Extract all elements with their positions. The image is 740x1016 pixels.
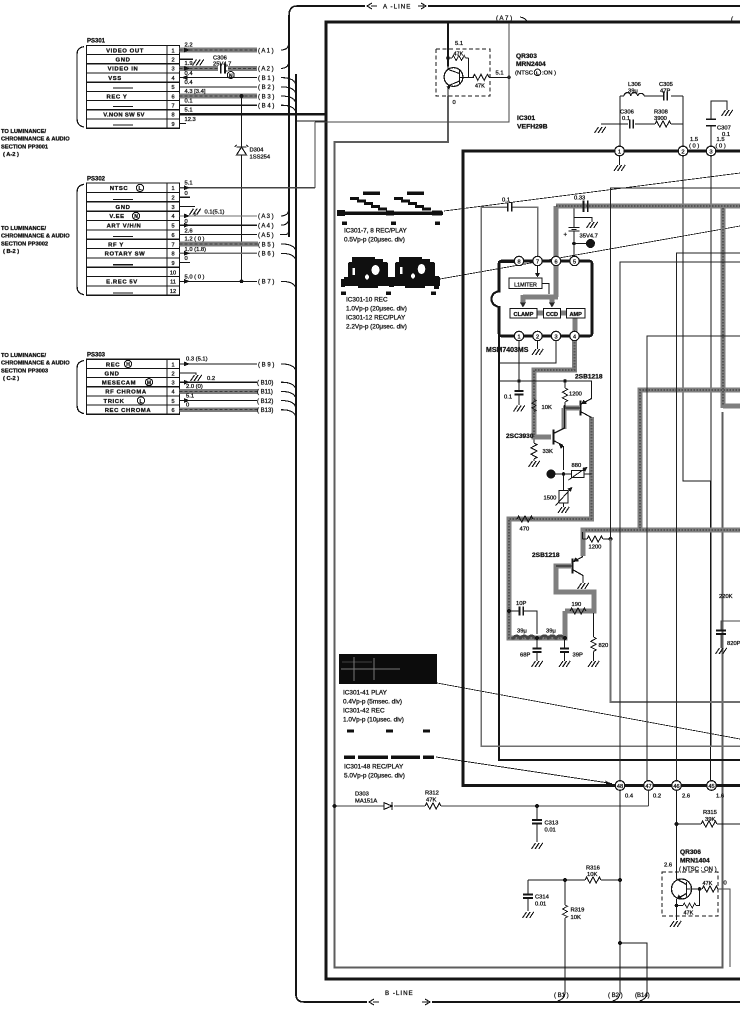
- svg-text:IC301-10 REC: IC301-10 REC: [346, 297, 388, 304]
- svg-text:6: 6: [171, 408, 174, 414]
- capacitor 0.1 (pin7 loop): [508, 203, 512, 212]
- svg-text:L1MITER: L1MITER: [514, 282, 537, 288]
- svg-text:( 0 ): ( 0 ): [716, 144, 726, 150]
- ground PS301-2: [193, 60, 204, 66]
- svg-text:5: 5: [171, 85, 174, 91]
- wire clamp-ccd-amp links: [536, 311, 567, 316]
- pin MSM-4: [570, 331, 579, 340]
- svg-text:0.1: 0.1: [622, 116, 630, 122]
- QR303_AREA: [315, 23, 556, 131]
- svg-text:4: 4: [171, 76, 174, 82]
- svg-text:RF CHROMA: RF CHROMA: [105, 390, 147, 396]
- wire R316 row: [528, 879, 620, 881]
- svg-text:0.1(5.1): 0.1(5.1): [205, 209, 225, 215]
- svg-text:8: 8: [517, 259, 520, 265]
- svg-text:( A 2 ): ( A 2 ): [258, 67, 274, 73]
- svg-text:8: 8: [171, 252, 174, 258]
- pin MSM-8: [514, 256, 523, 265]
- wire AMP to pin4 thick: [573, 317, 578, 332]
- pin MSM-2: [533, 331, 542, 340]
- pin IC301-3: [706, 146, 716, 156]
- pin IC301-48: [615, 781, 625, 791]
- diode D303: [384, 803, 392, 810]
- svg-text:39μ: 39μ: [628, 88, 638, 94]
- svg-text:6: 6: [171, 94, 174, 100]
- svg-text:IC301-12 REC/PLAY: IC301-12 REC/PLAY: [346, 315, 406, 322]
- capacitor C314: [527, 880, 529, 911]
- svg-text:820P: 820P: [727, 641, 740, 647]
- WAVEFORMS: [337, 173, 740, 785]
- wire PS301-8 V.NON SW 5V (bold): [179, 113, 327, 115]
- svg-text:1.0Vp-p (10μsec. div): 1.0Vp-p (10μsec. div): [343, 717, 404, 724]
- svg-text:0.1: 0.1: [185, 99, 193, 105]
- wire PS303-3 MESECAM to B10: [179, 381, 257, 383]
- op-amp IC301 block frame: [463, 151, 740, 786]
- svg-text:D303: D303: [355, 792, 369, 798]
- capacitor C306 (filter): [630, 120, 634, 129]
- svg-text:7: 7: [171, 104, 174, 110]
- svg-text:33K: 33K: [543, 449, 553, 455]
- svg-text:35V4.7: 35V4.7: [580, 234, 598, 240]
- svg-text:IC301-7, 8 REC/PLAY: IC301-7, 8 REC/PLAY: [344, 228, 407, 235]
- svg-text:3900: 3900: [654, 116, 667, 122]
- svg-text:45: 45: [708, 784, 714, 790]
- svg-text:2: 2: [171, 58, 174, 64]
- svg-text:( B 3 ): ( B 3 ): [258, 94, 274, 100]
- hook A7 to frame: [520, 17, 527, 22]
- pin MSM-3: [551, 331, 560, 340]
- svg-text:L: L: [138, 186, 141, 192]
- wire pin7 gray loop with 0.1 cap: [481, 207, 740, 746]
- box LIMITER: [509, 278, 542, 289]
- connector PS301 body: [87, 45, 180, 128]
- svg-text:GND: GND: [116, 58, 131, 64]
- svg-text:C305: C305: [659, 82, 673, 88]
- wire PS303-4 RF CHROMA to B11 (thick): [179, 389, 258, 394]
- pointer waveform3: [437, 683, 740, 739]
- svg-text:( B2 ): ( B2 ): [608, 993, 623, 999]
- svg-text:C313: C313: [545, 821, 559, 827]
- svg-text:1SS254: 1SS254: [250, 155, 271, 161]
- wire PS301-7 to B4: [179, 104, 257, 106]
- wire NTSC switch line (QR303 to PS302-1): [315, 23, 509, 122]
- svg-text:1: 1: [171, 362, 174, 368]
- svg-text:0.1: 0.1: [722, 132, 730, 138]
- wire PS301-2 to ground: [179, 58, 193, 60]
- wire pin48 drop to B2: [619, 790, 621, 992]
- junction PS302-11 / D304: [240, 279, 244, 283]
- resistor 47K (QR306 base): [702, 886, 718, 892]
- label QR306: [680, 849, 710, 865]
- capacitor 0.1 (rail bypass): [518, 381, 520, 405]
- svg-text:N: N: [134, 214, 138, 220]
- pin IC301-45: [707, 781, 717, 791]
- svg-text:0.4: 0.4: [185, 80, 194, 86]
- svg-text:0: 0: [185, 191, 188, 197]
- wire A7 feed to QR303 collector: [447, 23, 449, 67]
- svg-text:M: M: [147, 381, 151, 387]
- capacitor C306: [221, 64, 228, 74]
- arrow pin7 to LIMITER: [537, 266, 539, 275]
- label QR303: [516, 53, 546, 68]
- svg-text:REC: REC: [106, 362, 120, 368]
- wire PS301-6 to B3 (thick): [179, 94, 257, 99]
- svg-text:( B1 ): ( B1 ): [554, 993, 569, 999]
- svg-text:0.1: 0.1: [502, 198, 510, 204]
- wire signal path y390 branch: [640, 390, 740, 530]
- svg-text:( B 5 ): ( B 5 ): [258, 242, 274, 248]
- TRANSISTOR_AREA: [499, 374, 612, 668]
- svg-text:( B 1 ): ( B 1 ): [258, 76, 274, 82]
- junction on inner frame: [333, 804, 337, 808]
- resistor 47K (QR303 collector-base): [452, 55, 466, 60]
- wire 2SB1 collector loop thick: [509, 417, 594, 638]
- IC MSM7403MS body: [499, 261, 592, 336]
- svg-text:IC301-41 PLAY: IC301-41 PLAY: [343, 690, 388, 697]
- svg-text:10: 10: [170, 270, 176, 276]
- svg-text:0.01: 0.01: [545, 828, 556, 834]
- wire PS303-2 GND stub: [179, 373, 196, 375]
- wire loop via x610: [611, 188, 740, 539]
- svg-text:VSS: VSS: [108, 76, 122, 82]
- capacitor 35V4.7 branch: [574, 209, 592, 257]
- IC301_TOP: [463, 82, 740, 786]
- ground 2SB2 collector: [578, 583, 589, 589]
- wire PS301-1 to A1 (thick): [179, 48, 257, 53]
- wire PS302-5 ART to A4: [179, 224, 257, 226]
- svg-text:880: 880: [572, 463, 582, 469]
- B-LINE bracket marks: [369, 999, 430, 1005]
- svg-text:2: 2: [171, 371, 174, 377]
- svg-text:IC301: IC301: [517, 115, 535, 122]
- svg-text:12.3: 12.3: [185, 117, 196, 123]
- svg-text:47K: 47K: [454, 52, 464, 58]
- svg-text:5.1: 5.1: [455, 41, 463, 47]
- svg-text:2SC3930: 2SC3930: [506, 433, 534, 440]
- resistor 33K (2SC base): [533, 440, 535, 444]
- svg-text:1200: 1200: [569, 392, 582, 398]
- resistor 10K (in thick path): [532, 400, 537, 412]
- inductor 39u (first): [513, 636, 535, 640]
- svg-text:4: 4: [171, 390, 174, 396]
- hooks B1 B2 B14: [558, 992, 648, 1001]
- pointer waveform4 to pin48: [436, 757, 612, 784]
- wire PS303-5 TRICK to B12: [179, 400, 257, 402]
- svg-text:ART V/H/N: ART V/H/N: [107, 224, 142, 230]
- svg-text:0.1: 0.1: [504, 395, 512, 401]
- svg-text:(B14): (B14): [635, 993, 650, 999]
- wire pin46 riser from right: [677, 253, 740, 781]
- svg-text:2: 2: [171, 196, 174, 202]
- svg-text:( B 7 ): ( B 7 ): [258, 280, 274, 286]
- node N circle on V.EE: [132, 212, 139, 219]
- transistor 2SB1218 (first): [579, 401, 581, 416]
- junction QR303 collector node: [446, 56, 450, 60]
- svg-text:2.6: 2.6: [185, 228, 193, 234]
- svg-text:L: L: [139, 399, 142, 405]
- svg-text:L: L: [536, 71, 539, 77]
- junction emitter node: [562, 472, 566, 476]
- wire A-rail (left vertical rail to A-LINE): [288, 16, 290, 237]
- svg-text:0.4Vp-p (5msec. div): 0.4Vp-p (5msec. div): [343, 699, 402, 706]
- A-LINE bracket marks: [367, 3, 426, 9]
- label IC301: [517, 115, 548, 131]
- MSM notch: [492, 292, 499, 307]
- svg-text:R319: R319: [571, 908, 585, 914]
- svg-text:TO LUMINANCE/: TO LUMINANCE/: [1, 353, 46, 359]
- wire signal path right vertical: [723, 206, 740, 408]
- PS303 row names: [102, 362, 152, 414]
- svg-text:2SB1218: 2SB1218: [575, 374, 603, 381]
- pin MSM-6: [551, 256, 560, 265]
- svg-text:47K: 47K: [703, 881, 713, 887]
- svg-text:8: 8: [171, 113, 174, 119]
- svg-text:1: 1: [618, 149, 621, 155]
- pointer waveform2 to pin: [440, 226, 740, 279]
- svg-text:MSM7403MS: MSM7403MS: [486, 347, 529, 354]
- filter C306b/R308 bottom branch wire: [601, 123, 683, 125]
- svg-text:( A 1 ): ( A 1 ): [258, 48, 274, 54]
- inductor 39u (second): [541, 636, 564, 640]
- wire PS303-6 REC CHROMA to B13 (thick): [179, 407, 258, 412]
- svg-text:PS303: PS303: [87, 353, 106, 359]
- PS303 bracket: [77, 361, 84, 414]
- wire PS302-1 NTSC (to QR303): [179, 122, 315, 188]
- wire blob to 880: [551, 473, 571, 475]
- text TO LUMINANCE PP3002: [1, 226, 70, 255]
- svg-text:PS302: PS302: [87, 177, 106, 183]
- resistor R315: [675, 822, 679, 826]
- wire signal path thick 0.33 line: [556, 203, 740, 208]
- capacitor 0.33 in thick line: [584, 201, 588, 213]
- wire jog to B14: [620, 943, 647, 992]
- PS301 blank row dashes: [113, 88, 133, 125]
- svg-text:D304: D304: [250, 148, 265, 154]
- PS302 pin numbers: [170, 186, 176, 295]
- node N circle on C306: [227, 72, 234, 79]
- svg-text:4: 4: [573, 334, 576, 340]
- svg-text:48: 48: [617, 784, 623, 790]
- capacitor 68P: [536, 638, 538, 661]
- waveform IC301-41 photo: [339, 654, 437, 684]
- wire PS302-4 V.EE to A3: [179, 215, 257, 217]
- diode D304 wire: [241, 96, 243, 281]
- pointer waveform1 to pin: [444, 173, 740, 211]
- wire PS302-8 ROTARY SW to B6: [179, 252, 257, 254]
- svg-text:5: 5: [171, 224, 174, 230]
- waveform IC301-10/12 bursts: [341, 257, 440, 295]
- svg-text:6: 6: [171, 233, 174, 239]
- svg-text:47P: 47P: [660, 88, 670, 94]
- svg-text:1200: 1200: [589, 545, 602, 551]
- resistor 190 (in thick path): [570, 608, 586, 614]
- svg-text:1.0 (1.8): 1.0 (1.8): [185, 247, 207, 253]
- BOTTOM_AREA: [333, 781, 740, 1001]
- svg-text:5.0 ( 0 ): 5.0 ( 0 ): [185, 275, 205, 281]
- svg-text:47: 47: [645, 784, 651, 790]
- ground pin1: [619, 156, 621, 165]
- capacitor 39P: [564, 638, 566, 661]
- pin IC301-46: [672, 781, 682, 791]
- svg-text:2: 2: [536, 334, 539, 340]
- svg-text:39P: 39P: [573, 653, 583, 659]
- svg-text:5: 5: [171, 399, 174, 405]
- node H circle on REC: [124, 360, 131, 367]
- PS302 bracket: [77, 184, 84, 294]
- svg-text:C306: C306: [620, 110, 634, 116]
- resistor 880 (variable): [572, 470, 585, 477]
- junction C313: [535, 804, 539, 808]
- wire PS301-9 stub: [179, 123, 186, 125]
- svg-text:1.0Vp-p (20μsec. div): 1.0Vp-p (20μsec. div): [346, 306, 407, 313]
- svg-text:SECTION PP3002: SECTION PP3002: [1, 241, 48, 247]
- ground 0.1 rail bypass: [514, 406, 525, 412]
- svg-text:R312: R312: [425, 791, 439, 797]
- svg-text:10K: 10K: [542, 405, 552, 411]
- svg-text:2.6: 2.6: [682, 794, 690, 800]
- inner gray frame wire (QR303 emitter route): [335, 96, 723, 968]
- wire pin2 drop and jog to pin45: [683, 156, 711, 781]
- wire PS303-1 REC to B9: [179, 363, 257, 365]
- svg-text:1: 1: [517, 334, 520, 340]
- svg-text:L306: L306: [628, 82, 641, 88]
- wire pin3 route: [499, 341, 556, 363]
- resistor 47K (QR306 feedback): [675, 904, 679, 908]
- svg-text:2.2: 2.2: [185, 43, 193, 49]
- pin MSM-1: [514, 331, 523, 340]
- wire B1-B4 bundle stub: [296, 120, 326, 122]
- junction blob: [586, 239, 595, 248]
- text TO LUMINANCE PP3001: [1, 129, 70, 158]
- wire 47K to 0 node: [718, 889, 730, 967]
- svg-text:( 0 ): ( 0 ): [689, 144, 699, 150]
- junction 39u row right: [563, 636, 567, 640]
- svg-text:9: 9: [171, 261, 174, 267]
- PS302 row names: [105, 186, 146, 286]
- svg-text:3: 3: [171, 67, 174, 73]
- svg-text:47K: 47K: [426, 798, 436, 804]
- svg-text:1.5: 1.5: [717, 137, 725, 143]
- wire PS301-5 to B2: [179, 86, 257, 88]
- resistor 47K (QR303 base): [473, 74, 489, 80]
- svg-text:39K: 39K: [705, 817, 715, 823]
- PS303 pin numbers: [171, 362, 174, 414]
- svg-text:5.1: 5.1: [186, 393, 194, 399]
- PS301 row names: [103, 48, 144, 118]
- wire PS302-3 GND stub: [179, 206, 195, 208]
- ground QR306 emitter: [670, 921, 681, 927]
- QR306 dashed box: [662, 872, 718, 916]
- wire PS302-2 stub: [179, 196, 190, 198]
- svg-text:C314: C314: [535, 895, 550, 901]
- svg-text:11: 11: [170, 280, 176, 286]
- node L circle on TRICK: [137, 397, 144, 404]
- svg-text:( A 3 ): ( A 3 ): [258, 214, 274, 220]
- svg-text:820: 820: [599, 643, 609, 649]
- svg-text:5: 5: [573, 259, 576, 265]
- svg-text:( B12): ( B12): [257, 399, 273, 405]
- svg-text:0: 0: [185, 256, 188, 262]
- svg-text:PS301: PS301: [87, 39, 106, 45]
- svg-text:SECTION PP3003: SECTION PP3003: [1, 368, 48, 374]
- connector PS303 body: [87, 359, 180, 414]
- svg-text:47K: 47K: [684, 911, 694, 917]
- svg-text:0.2: 0.2: [653, 794, 661, 800]
- svg-text:0.2: 0.2: [207, 376, 215, 382]
- junction 1200 tap: [609, 537, 613, 541]
- wire signal path 1200 row: [583, 530, 740, 556]
- svg-text:CHROMINANCE & AUDIO: CHROMINANCE & AUDIO: [1, 234, 70, 240]
- svg-text:10K: 10K: [571, 915, 581, 921]
- waveform IC301-48 dashes: [344, 730, 434, 759]
- svg-text:V.NON SW 5V: V.NON SW 5V: [103, 113, 144, 119]
- wire B-rail (left vertical rail to B-LINE): [295, 74, 297, 996]
- ground pin2: [537, 341, 539, 349]
- svg-text:47K: 47K: [475, 84, 485, 90]
- svg-text:220K: 220K: [719, 594, 733, 600]
- svg-text:( A 7 ): ( A 7 ): [496, 15, 512, 22]
- text TO LUMINANCE PP3003: [1, 353, 70, 382]
- wire supply rail y381: [499, 380, 592, 382]
- svg-text:CLAMP: CLAMP: [514, 312, 534, 318]
- svg-text:2SB1218: 2SB1218: [532, 552, 560, 559]
- resistor 820: [593, 613, 595, 637]
- svg-text:( B 9 ): ( B 9 ): [258, 362, 274, 368]
- pin MSM-5: [570, 256, 579, 265]
- svg-text:R316: R316: [586, 866, 600, 872]
- svg-text:1.5: 1.5: [690, 137, 698, 143]
- svg-text:0.5Vp-p (20μsec. div): 0.5Vp-p (20μsec. div): [344, 237, 405, 244]
- svg-text:C307: C307: [717, 126, 731, 132]
- transistor QR306: [672, 879, 692, 899]
- transistor 2SC3930: [552, 430, 554, 445]
- junction 39u row left: [535, 636, 539, 640]
- inductor L306: [624, 93, 644, 96]
- PS301_BLOCK: [1, 39, 327, 282]
- svg-text:MRN1404: MRN1404: [680, 858, 710, 865]
- wire R312/D303 line: [335, 790, 649, 806]
- pin IC301-2: [678, 146, 688, 156]
- svg-text:0: 0: [453, 100, 456, 106]
- wire PS301-3 to A2 (thick) with C306: [179, 66, 257, 71]
- svg-text:25V4.7: 25V4.7: [213, 61, 231, 67]
- svg-text:A -LINE: A -LINE: [383, 4, 411, 11]
- node A-LINE top bus: [289, 6, 740, 16]
- svg-text:0.01: 0.01: [535, 902, 546, 908]
- svg-text:REC Y: REC Y: [107, 94, 128, 100]
- svg-text:3: 3: [709, 149, 712, 155]
- svg-text:MRN2404: MRN2404: [516, 61, 546, 68]
- svg-text:1.6: 1.6: [716, 794, 724, 800]
- wire PS302-7 RF Y to B5 (thick): [179, 241, 258, 246]
- PS301 bracket: [77, 47, 84, 127]
- svg-text:1: 1: [171, 48, 174, 54]
- box AMP: [567, 309, 586, 319]
- svg-text:39μ: 39μ: [546, 629, 556, 635]
- svg-text:12: 12: [170, 289, 176, 295]
- RIGHT_AREA: [611, 188, 740, 781]
- svg-text:R315: R315: [703, 810, 717, 816]
- svg-text:E.REC 5V: E.REC 5V: [106, 280, 138, 286]
- svg-text:3: 3: [554, 334, 557, 340]
- wire pin3 drop: [710, 156, 712, 746]
- PS302 blank row dashes: [113, 199, 133, 292]
- svg-text:QR303: QR303: [516, 53, 537, 60]
- svg-text:CHROMINANCE & AUDIO: CHROMINANCE & AUDIO: [1, 137, 70, 143]
- transistor QR303: [444, 68, 463, 87]
- junction PS301-6 / D304: [240, 94, 244, 98]
- junction base node: [507, 76, 511, 80]
